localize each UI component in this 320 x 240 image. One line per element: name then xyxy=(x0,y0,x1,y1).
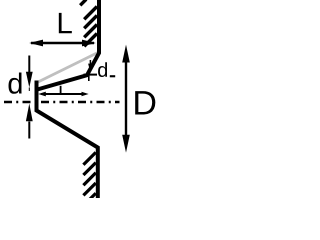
D dimension double arrow xyxy=(125,58,127,140)
label l tick xyxy=(60,86,62,94)
d dimension lower arrow (points up) xyxy=(28,122,30,139)
upper wall hatching xyxy=(80,0,97,46)
gray cone edge line xyxy=(37,52,99,83)
d dimension upper arrow (points down) xyxy=(28,56,30,74)
vertex extension tick xyxy=(88,75,90,81)
small l dimension double arrow xyxy=(41,93,83,95)
d2 horizontal tick xyxy=(84,74,98,76)
bore face and lower plate profile with downstream wall xyxy=(37,81,98,202)
centerline (dash-dot axis) xyxy=(0,101,120,104)
lower wall hatching xyxy=(83,152,95,199)
label d xyxy=(9,72,22,93)
d2 arrow (points down) xyxy=(89,60,91,65)
label L xyxy=(59,13,72,33)
label D xyxy=(135,91,155,114)
label d2 xyxy=(98,62,107,77)
upper plate profile (bore edge, conical bevel, upstream face wall) xyxy=(37,0,99,90)
dimension arrow L xyxy=(31,42,94,44)
